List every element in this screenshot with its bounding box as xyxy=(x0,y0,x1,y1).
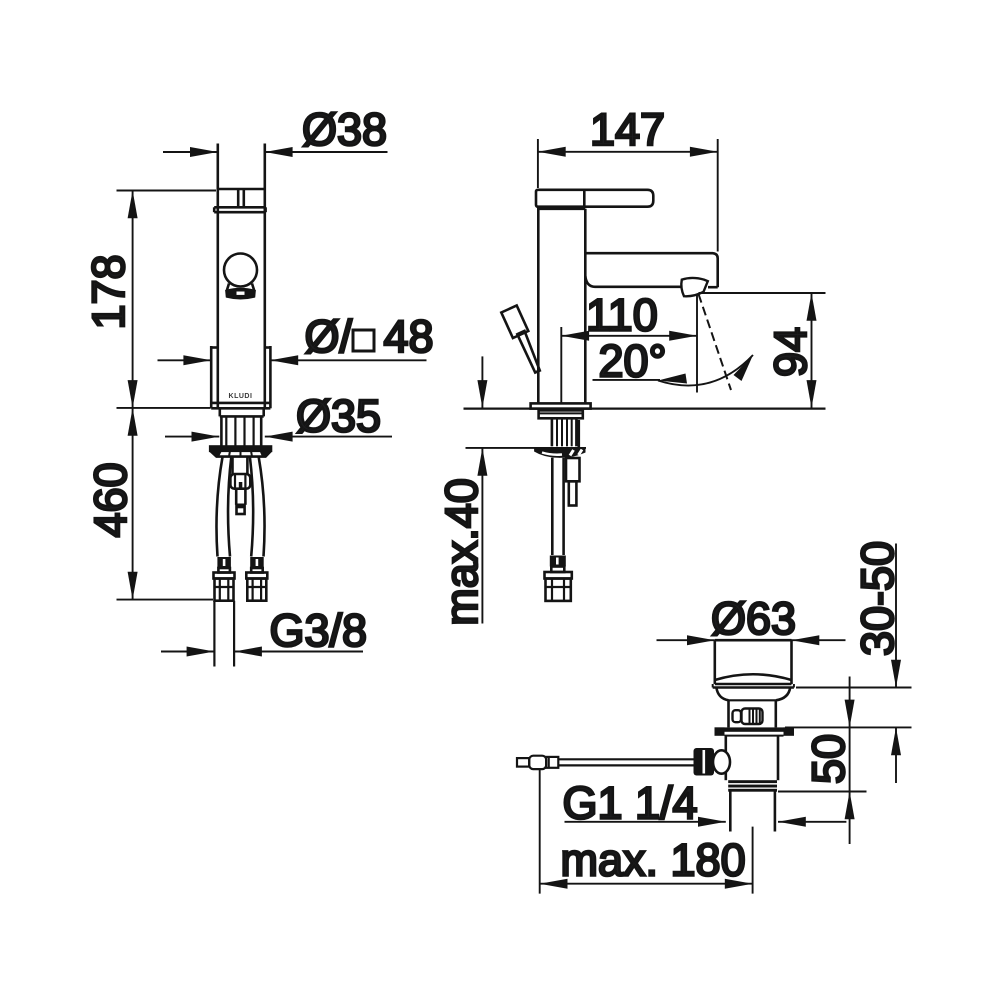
front view square base xyxy=(211,346,270,408)
dimension 110 xyxy=(561,294,697,405)
drain pop-up rod ball joint nut xyxy=(694,748,731,776)
dimension 20 degrees xyxy=(593,294,754,390)
front view handle knob circle xyxy=(224,254,257,299)
front view escutcheon flange xyxy=(210,447,271,457)
drain valve lower body xyxy=(726,736,778,780)
side view G3/8 connector nut xyxy=(545,572,572,601)
svg-text:30-50: 30-50 xyxy=(852,541,903,656)
mounting deck line xyxy=(464,408,826,410)
svg-text:KLUDI: KLUDI xyxy=(229,393,253,400)
dimension 94 xyxy=(699,293,826,408)
svg-text:178: 178 xyxy=(83,254,134,329)
side view hose xyxy=(552,458,563,555)
side view threaded shank xyxy=(552,418,577,446)
front view right hose crimp band xyxy=(250,557,264,573)
dimension max.40 xyxy=(466,356,587,623)
side view spacer under deck xyxy=(539,410,583,418)
svg-text:G3/8: G3/8 xyxy=(270,605,368,656)
front view right G3/8 connector nut xyxy=(246,573,267,601)
svg-text:147: 147 xyxy=(590,104,665,155)
svg-text:Ø38: Ø38 xyxy=(302,104,387,155)
front view supply pipes below xyxy=(214,601,234,667)
dimension G1 1/4 xyxy=(565,817,847,827)
front view tailpiece xyxy=(233,457,248,474)
front view tailpiece nut xyxy=(230,474,250,489)
drain horizontal pop-up rod xyxy=(517,756,694,769)
dimension 178 xyxy=(117,191,217,408)
svg-text:Ø63: Ø63 xyxy=(711,593,796,644)
dimension Ø/□48 xyxy=(158,355,427,365)
side view hose crimp band xyxy=(550,556,566,573)
side view escutcheon below counter xyxy=(534,447,585,458)
front view threaded shank xyxy=(221,416,261,446)
dimension max. 180 xyxy=(540,769,753,894)
dimension 147 xyxy=(538,139,718,252)
front view cap collar xyxy=(214,207,265,212)
dimension 30-50 xyxy=(785,544,912,784)
svg-text:48: 48 xyxy=(384,311,434,362)
side view lever bar xyxy=(536,190,653,207)
front view flexible hoses xyxy=(216,457,264,557)
drain valve clip detail xyxy=(733,709,763,725)
drain valve flange xyxy=(715,727,795,735)
dimension Ø38 xyxy=(163,147,388,157)
svg-text:110: 110 xyxy=(586,290,658,341)
drain plug cap xyxy=(713,640,794,687)
svg-text:Ø35: Ø35 xyxy=(296,391,381,442)
side view spout xyxy=(585,253,717,287)
dimension 50 xyxy=(778,677,867,845)
side view aerator outlet xyxy=(681,278,707,296)
drain valve upper body xyxy=(729,700,776,727)
svg-text:G1 1/4: G1 1/4 xyxy=(563,778,698,829)
side view deck flange xyxy=(531,403,591,408)
dimension 460 xyxy=(117,408,214,600)
front view lever seen head-on xyxy=(238,189,244,207)
dimension G3/8 xyxy=(161,647,363,657)
side view pop-up rod below deck xyxy=(566,420,580,506)
front view shank stub xyxy=(220,408,264,416)
svg-text:94: 94 xyxy=(765,327,816,377)
drain centerline xyxy=(752,827,754,894)
front view left G3/8 connector nut xyxy=(214,573,235,601)
svg-text:max.40: max.40 xyxy=(436,478,487,626)
drain tailpipe threads xyxy=(728,780,777,792)
dimension Ø63 xyxy=(657,635,846,645)
front view left hose crimp band xyxy=(217,557,231,573)
side view body column xyxy=(538,207,585,404)
side view pop-up lever rod xyxy=(501,306,540,373)
svg-text:max. 180: max. 180 xyxy=(561,835,746,886)
drain tailpipe xyxy=(730,792,775,832)
svg-text:Ø/: Ø/ xyxy=(305,311,353,362)
svg-text:50: 50 xyxy=(803,734,854,784)
front view lower pipe and tip xyxy=(236,489,245,514)
front view body outline xyxy=(218,144,265,409)
drain plug neck taper xyxy=(716,688,790,701)
dimension Ø35 xyxy=(165,432,392,442)
svg-text:20°: 20° xyxy=(599,336,667,387)
svg-text:460: 460 xyxy=(85,462,136,537)
